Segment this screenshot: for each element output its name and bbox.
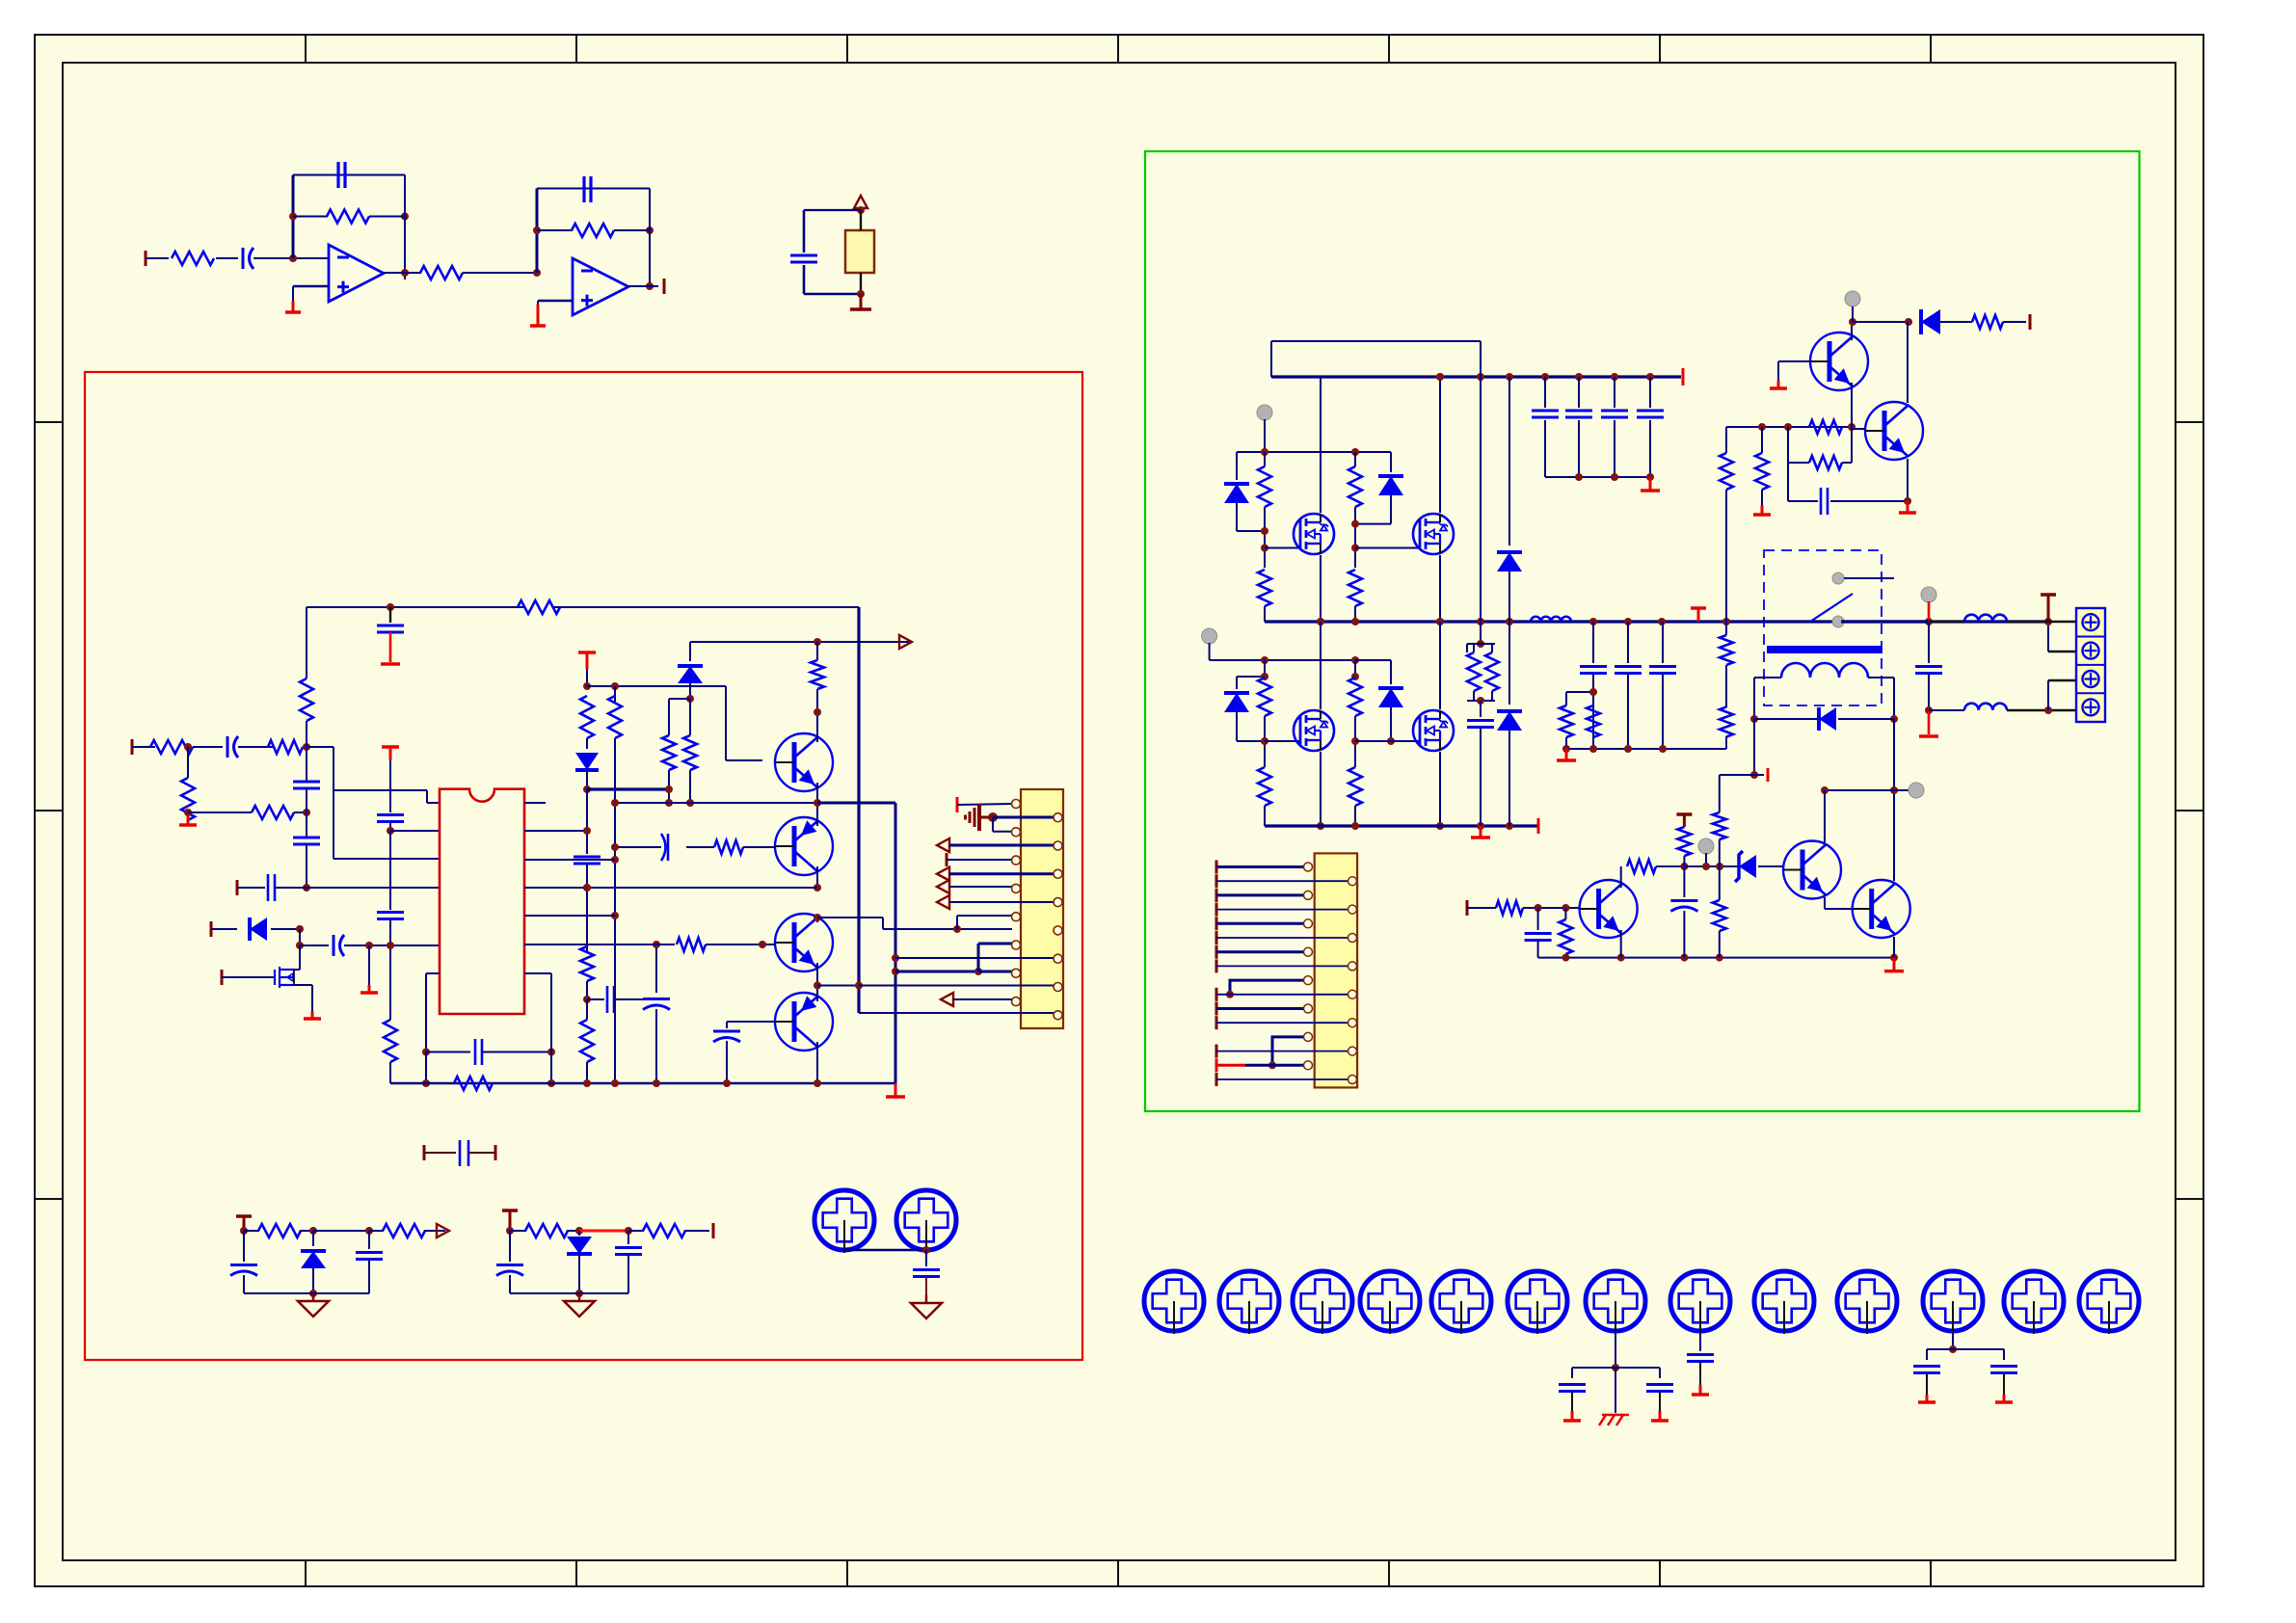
junction	[1612, 1364, 1619, 1371]
pin pad	[1012, 941, 1021, 949]
junction	[1890, 786, 1898, 794]
wire	[1237, 530, 1265, 532]
wire	[628, 1230, 644, 1232]
wire	[293, 216, 328, 218]
relay switch	[1810, 594, 1853, 622]
wire column	[1508, 377, 1510, 545]
capacitor C38	[1687, 1353, 1714, 1356]
wire mid rail	[1265, 620, 2047, 623]
pin pad	[1304, 976, 1313, 985]
pin wire	[860, 273, 862, 294]
junction	[1848, 423, 1855, 431]
wire	[1662, 674, 1664, 749]
power port	[578, 651, 596, 654]
wire	[1725, 622, 1727, 635]
wire	[1508, 622, 1510, 705]
port	[1215, 889, 1218, 902]
wire	[468, 1152, 495, 1154]
capacitor C23	[913, 1268, 940, 1271]
ground	[894, 1083, 897, 1097]
pin pad	[1012, 884, 1021, 892]
resistor R9	[252, 806, 294, 819]
junction	[1317, 618, 1324, 625]
pin pad	[1054, 813, 1062, 822]
wire	[1753, 719, 1755, 775]
wire	[627, 1255, 629, 1293]
wire	[1851, 427, 1853, 463]
junction	[401, 213, 409, 221]
wire	[1564, 954, 1566, 958]
junction	[922, 1246, 930, 1254]
wire highlighted	[579, 1230, 628, 1233]
port arrow	[437, 1224, 449, 1237]
resistor R21	[714, 840, 743, 854]
junction	[686, 695, 694, 703]
junction	[857, 290, 865, 298]
junction	[953, 925, 961, 933]
junction	[855, 982, 863, 990]
junction	[1784, 423, 1792, 431]
wire	[1929, 621, 1964, 623]
ground	[311, 1011, 314, 1019]
wire	[669, 698, 690, 700]
wire	[254, 257, 329, 259]
capacitor C8b	[377, 625, 404, 627]
junction	[547, 1049, 555, 1056]
transistor Q4	[775, 993, 833, 1051]
wire	[1929, 709, 1964, 711]
terminal 3	[2083, 671, 2099, 687]
inductor L2	[1964, 615, 2007, 622]
capacitor C1	[242, 248, 245, 269]
wire	[193, 746, 223, 748]
wire	[578, 1254, 580, 1293]
wire	[1719, 866, 1721, 900]
wire	[368, 1260, 370, 1293]
junction	[1535, 904, 1542, 912]
junction	[240, 1227, 248, 1235]
junction	[1226, 991, 1234, 998]
capacitor C28	[1467, 719, 1494, 722]
wire	[211, 928, 237, 930]
power port	[382, 745, 399, 749]
resistor R35	[1467, 652, 1481, 691]
junction	[1436, 373, 1444, 381]
mounting hole H2	[896, 1190, 956, 1250]
wire	[803, 265, 806, 294]
wire QF collector	[1907, 322, 1909, 403]
wire	[1754, 718, 1821, 720]
wire	[306, 812, 307, 838]
junction	[296, 942, 304, 949]
wire	[925, 1250, 927, 1266]
wire	[1390, 452, 1392, 472]
ground	[1480, 826, 1482, 838]
wire	[1467, 643, 1495, 645]
junction	[575, 1290, 583, 1297]
resistor R4	[572, 224, 614, 237]
pin pad	[1348, 934, 1357, 943]
junction	[1351, 448, 1359, 456]
wire	[1719, 839, 1721, 866]
capacitor C36	[1559, 1383, 1586, 1386]
junction	[1624, 745, 1632, 753]
junction	[1575, 373, 1583, 381]
wire Q3 base	[706, 944, 776, 945]
diode D1	[250, 918, 267, 941]
relay contact	[1832, 572, 1844, 584]
capacitor C12	[474, 1039, 477, 1065]
junction	[1849, 318, 1856, 326]
wire QE collector	[1851, 322, 1853, 340]
pin pad	[1012, 998, 1021, 1006]
op-amp	[329, 245, 384, 302]
capacitor C8	[377, 813, 404, 816]
source wire	[294, 984, 312, 986]
ground	[368, 985, 371, 993]
wire	[1354, 606, 1356, 622]
wire pin7	[949, 886, 1012, 888]
wire	[1473, 691, 1475, 701]
wire	[369, 1230, 384, 1232]
junction	[1890, 715, 1898, 723]
wire	[1209, 643, 1211, 660]
wire	[1838, 718, 1894, 720]
mounting hole H13	[1923, 1271, 1983, 1331]
junction	[1317, 822, 1324, 830]
junction	[1261, 448, 1268, 456]
capacitor C40	[1990, 1365, 2017, 1368]
earth ground	[977, 804, 981, 831]
junction	[814, 638, 821, 646]
power port	[1676, 812, 1692, 816]
wire	[426, 1051, 470, 1053]
wire	[1753, 678, 1755, 719]
junction	[583, 1079, 591, 1087]
port	[1466, 900, 1469, 916]
capacitor C6	[293, 781, 320, 784]
junction	[723, 1079, 731, 1087]
wire	[1216, 1007, 1308, 1010]
junction	[1925, 618, 1933, 625]
wire source	[1320, 555, 1322, 622]
resistor R37	[1560, 705, 1573, 737]
junction	[686, 799, 694, 807]
relay K1 box	[1764, 550, 1882, 705]
junction	[1477, 373, 1484, 381]
wire	[405, 272, 421, 274]
resistor R23	[258, 1224, 301, 1237]
wire	[1216, 1051, 1352, 1052]
wire source	[1439, 555, 1441, 622]
wire	[689, 683, 691, 699]
wire pin10	[883, 928, 1012, 930]
transistor QE	[1810, 333, 1868, 390]
wire	[586, 738, 588, 749]
wire	[1615, 1368, 1616, 1413]
wire	[614, 686, 616, 702]
wire	[244, 1292, 369, 1294]
port	[956, 797, 959, 812]
wire	[686, 846, 714, 848]
resistor R26	[643, 1224, 685, 1237]
resistor R5 body	[845, 230, 874, 273]
ground	[2003, 1395, 2006, 1402]
wire	[1825, 789, 1909, 791]
net flag	[1845, 291, 1860, 306]
power port	[502, 1209, 518, 1212]
capacitor C17	[667, 834, 670, 861]
junction	[1261, 673, 1268, 680]
wire	[1928, 622, 1930, 663]
wire pin14	[859, 985, 1057, 987]
junction	[1351, 545, 1359, 552]
resistor R41	[1809, 420, 1842, 434]
wire	[275, 887, 307, 889]
wire pin L4	[307, 887, 440, 889]
wire	[536, 189, 539, 274]
wire Q gate	[1355, 547, 1421, 549]
IC U2	[440, 789, 524, 1014]
resistor R10	[300, 678, 313, 721]
wire	[1926, 1349, 1928, 1360]
junction	[1506, 822, 1513, 830]
wire pin1	[957, 804, 1012, 805]
wire	[425, 973, 427, 1052]
resistor R25	[525, 1224, 568, 1237]
pin pad	[1304, 919, 1313, 928]
wire pin R6	[524, 944, 675, 945]
wire	[537, 229, 573, 231]
resistor R1	[172, 252, 214, 265]
wire	[684, 1230, 709, 1232]
diode D7	[1378, 476, 1403, 495]
junction	[1477, 618, 1484, 625]
ground	[1761, 505, 1764, 515]
junction	[583, 785, 591, 793]
wire	[1270, 341, 1272, 377]
capacitor C11	[333, 935, 335, 956]
junction	[1750, 715, 1758, 723]
wire pin6	[949, 872, 1057, 875]
mounting hole H3	[1144, 1271, 1204, 1331]
capacitor	[1615, 665, 1642, 668]
resistor R47	[1677, 827, 1691, 856]
junction	[665, 785, 673, 793]
junction	[1680, 954, 1688, 962]
pin pad	[1348, 877, 1357, 886]
wire pin R2	[524, 830, 587, 832]
resistor R29	[1348, 466, 1362, 507]
wire	[1354, 452, 1356, 466]
wire pin R4	[524, 887, 817, 889]
red stem	[1928, 601, 1931, 622]
junction	[575, 1227, 583, 1235]
wire	[368, 945, 370, 985]
capacitor C7	[293, 837, 320, 839]
wire pin8	[949, 901, 1055, 903]
ground	[1926, 1395, 1929, 1402]
junction	[1261, 527, 1268, 535]
wire	[1566, 691, 1593, 693]
ground	[187, 815, 190, 825]
port	[1215, 1058, 1218, 1072]
junction	[583, 996, 591, 1003]
wire	[1216, 1022, 1352, 1024]
junction	[814, 799, 821, 807]
wire	[482, 1051, 551, 1053]
port arrow	[937, 838, 949, 852]
wire	[1683, 866, 1685, 897]
wire source	[1320, 752, 1322, 826]
wire	[333, 747, 334, 859]
capacitor C2	[336, 162, 339, 188]
resistor R30	[1348, 570, 1362, 606]
inductor L3	[1964, 704, 2007, 710]
wire	[2047, 680, 2049, 710]
wire QI collector	[1893, 719, 1895, 881]
wire	[1725, 736, 1727, 737]
port	[1215, 861, 1218, 874]
wire	[553, 606, 859, 608]
junction	[1722, 618, 1730, 625]
wire	[1216, 950, 1308, 953]
wire pin13 thick	[895, 971, 978, 973]
wire	[1236, 712, 1238, 741]
wire QF base	[1853, 428, 1866, 430]
resistor R19	[683, 735, 697, 770]
resistor R11	[518, 600, 560, 614]
wire	[389, 759, 391, 812]
junction	[611, 912, 619, 919]
wire	[1508, 572, 1510, 622]
wire	[1787, 427, 1789, 463]
wire	[817, 917, 883, 918]
junction	[857, 206, 865, 214]
wire	[1627, 622, 1629, 663]
resistor R48	[1713, 812, 1726, 839]
capacitor C14	[606, 986, 609, 1013]
diode D13	[1819, 707, 1836, 731]
wire Q gate	[1265, 547, 1301, 549]
ground	[537, 305, 540, 326]
pin pad	[1348, 1047, 1357, 1055]
junction	[2044, 706, 2052, 714]
mounting hole H4	[1219, 1271, 1279, 1331]
wire	[509, 1275, 511, 1293]
wire	[649, 189, 651, 287]
port	[1215, 903, 1218, 917]
wire	[1754, 677, 1781, 678]
junction	[583, 884, 591, 891]
pin pad	[1304, 863, 1313, 871]
wire	[689, 699, 691, 735]
junction	[583, 682, 591, 690]
wire	[586, 789, 588, 854]
pin pad	[1348, 1019, 1357, 1027]
wire pin L6	[344, 945, 440, 946]
junction	[1575, 473, 1583, 481]
wire	[2003, 1373, 2005, 1395]
diode D3	[678, 666, 703, 683]
junction	[1351, 822, 1359, 830]
wire	[299, 929, 301, 945]
wire	[650, 285, 658, 287]
wire Q4 emitter	[816, 1042, 818, 1083]
wire jog	[1230, 980, 1308, 995]
mounting hole H12	[1837, 1271, 1897, 1331]
port	[712, 1223, 715, 1238]
wire	[303, 746, 307, 748]
wire	[586, 981, 588, 999]
wire	[1564, 908, 1566, 919]
junction	[365, 1227, 373, 1235]
wire Q3-Q4	[816, 963, 818, 1001]
port	[423, 1145, 426, 1160]
wire	[1853, 321, 1912, 323]
wire	[307, 746, 334, 748]
wire	[1537, 941, 1539, 958]
wire	[2048, 651, 2076, 652]
diode D6	[1224, 484, 1249, 503]
wire	[1236, 677, 1238, 689]
wire	[1578, 420, 1580, 477]
resistor R38	[1587, 705, 1600, 737]
wire	[615, 802, 817, 804]
transistor Q1	[775, 733, 833, 791]
power port	[1691, 606, 1706, 610]
wire	[1893, 678, 1895, 719]
wire	[1699, 1333, 1701, 1351]
resistor R13	[454, 1077, 493, 1090]
capacitor	[1649, 665, 1676, 668]
wire pin R7	[524, 972, 551, 974]
diode D11	[1497, 711, 1522, 731]
junction	[1436, 618, 1444, 625]
wire thick	[894, 803, 897, 1083]
wire	[313, 1230, 369, 1232]
mounting hole H14	[2004, 1271, 2064, 1331]
resistor R12	[384, 1020, 397, 1062]
zener diode D4	[301, 1251, 326, 1268]
wire	[1614, 377, 1615, 408]
wire pin2	[993, 816, 1057, 819]
diode D12	[1921, 309, 1940, 334]
wire	[587, 998, 604, 1000]
wire	[1216, 893, 1308, 896]
wire drain	[1320, 377, 1322, 513]
wire	[1927, 1348, 2004, 1350]
junction	[611, 682, 619, 690]
pin pad	[1304, 1004, 1313, 1013]
power port	[2041, 593, 2056, 597]
wire	[306, 844, 307, 888]
wire pin12	[895, 957, 1057, 959]
wire	[510, 1292, 628, 1294]
capacitor C13	[574, 856, 601, 859]
capacitor C9	[377, 911, 404, 914]
wire	[1390, 660, 1392, 684]
drain wire	[294, 969, 300, 971]
junction	[1351, 737, 1359, 745]
wire	[1788, 500, 1818, 502]
junction	[1624, 618, 1632, 625]
wire	[1544, 420, 1546, 477]
wire	[187, 747, 189, 778]
resistor R8	[181, 778, 195, 820]
wire	[132, 746, 155, 748]
port	[210, 921, 213, 937]
